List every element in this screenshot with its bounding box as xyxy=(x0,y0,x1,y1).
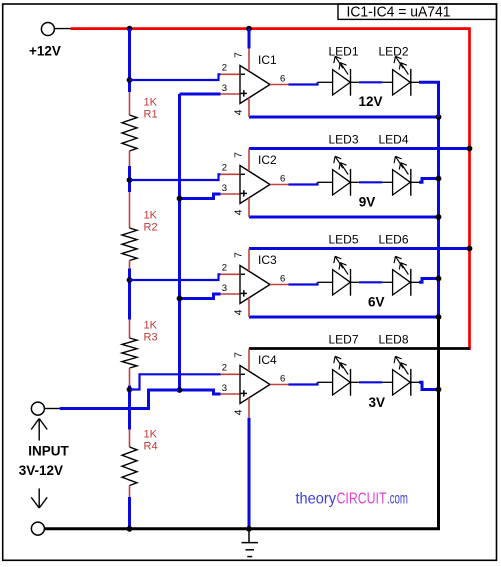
svg-text:4: 4 xyxy=(233,209,245,215)
node +12V rail / IC2 pin7 xyxy=(467,146,473,152)
wire LED2 cathode to bus xyxy=(419,82,439,117)
wire LED4 cathode to bus xyxy=(419,179,439,183)
svg-text:theory: theory xyxy=(296,490,337,507)
wire LED6 cathode to bus xyxy=(419,279,439,283)
node cathode bus / IC2 pin4 xyxy=(436,214,442,220)
IC1 pin 4 stub xyxy=(248,98,250,117)
LED7 xyxy=(318,356,359,395)
node top rail / R ladder xyxy=(127,26,133,32)
svg-text:12V: 12V xyxy=(358,94,382,109)
op-amp IC4 uA741 xyxy=(240,366,270,404)
node R4 bottom / ground rail xyxy=(127,526,133,532)
svg-text:4: 4 xyxy=(233,409,245,415)
svg-text:R2: R2 xyxy=(144,222,158,234)
node cathode bus / LED6 xyxy=(436,276,442,282)
IC2 pin 4 stub xyxy=(248,198,250,217)
wire IC4 pin4 to ground rail xyxy=(248,418,251,529)
note box IC1-IC4 = uA741 xyxy=(338,4,497,19)
wire IC1 pin 3 branch xyxy=(180,93,221,96)
svg-text:3V: 3V xyxy=(368,395,385,410)
wire IC3 pin 3 branch xyxy=(180,294,221,299)
svg-text:1K: 1K xyxy=(144,97,158,109)
wire IC3 output to LED5 xyxy=(289,282,318,284)
svg-text:LED6: LED6 xyxy=(379,233,409,247)
IC4 pin 3 stub xyxy=(221,393,240,395)
wire cathode bus (blue section) xyxy=(437,117,440,317)
svg-text:6V: 6V xyxy=(368,295,385,310)
svg-text:7: 7 xyxy=(233,352,245,358)
svg-text:R4: R4 xyxy=(144,441,158,453)
op-amp IC1 uA741 xyxy=(240,66,270,104)
LED2 xyxy=(382,56,419,95)
IC4 pin 2 stub xyxy=(221,373,240,375)
node pin3 bus / INPUT xyxy=(177,387,183,393)
svg-text:LED7: LED7 xyxy=(329,333,359,347)
IC2 pin 7 stub xyxy=(248,149,250,171)
resistor R2 1K xyxy=(122,180,137,280)
IC2 pin 3 stub xyxy=(221,193,240,195)
IC4 pin 4 stub xyxy=(248,398,250,418)
node cathode bus / LED4 xyxy=(436,176,442,182)
svg-text:1K: 1K xyxy=(144,210,158,222)
svg-text:1K: 1K xyxy=(144,320,158,332)
svg-text:2: 2 xyxy=(222,63,227,74)
wire IC1 output to LED1 xyxy=(289,82,318,84)
svg-text:3: 3 xyxy=(222,83,227,94)
arrow input down xyxy=(38,488,40,507)
svg-text:2: 2 xyxy=(222,163,227,174)
logo theoryCIRCUIT.com xyxy=(296,490,409,507)
svg-text:.com: .com xyxy=(387,490,408,507)
IC3 pin 3 stub xyxy=(221,293,240,295)
svg-text:LED1: LED1 xyxy=(329,45,359,59)
svg-text:+12V: +12V xyxy=(29,43,61,58)
svg-text:R3: R3 xyxy=(144,332,158,344)
resistor R3 1K xyxy=(122,280,137,390)
resistor R4 1K xyxy=(122,390,137,529)
wire INPUT to pin3 bus xyxy=(60,390,180,409)
IC1 pin 2 stub xyxy=(221,73,240,75)
wire LED3-LED4 link xyxy=(359,181,382,183)
LED1 xyxy=(318,56,359,95)
node top rail / IC1 pin7 xyxy=(246,26,252,32)
wire ladder to IC1 pin 2 xyxy=(130,74,221,80)
wire IC4 pin 3 branch xyxy=(180,390,221,394)
svg-text:IC2: IC2 xyxy=(258,153,277,167)
svg-text:4: 4 xyxy=(233,309,245,315)
node R1 top / IC1 pin2 xyxy=(127,77,133,83)
op-amp IC2 uA741 xyxy=(240,166,270,204)
svg-text:LED3: LED3 xyxy=(329,133,359,147)
wire ground rail (bottom) and right bus xyxy=(44,317,438,529)
wire IC4 pin7 to +12V rail xyxy=(249,347,470,350)
IC3 pin 7 stub xyxy=(248,249,250,271)
LED6 xyxy=(382,256,419,295)
svg-text:LED4: LED4 xyxy=(379,133,409,147)
svg-text:6: 6 xyxy=(280,174,285,185)
LED3 xyxy=(318,156,359,195)
node cathode bus / IC1 pin4 xyxy=(436,114,442,120)
IC3 pin 4 stub xyxy=(248,298,250,317)
LED8 xyxy=(382,356,419,395)
svg-text:3: 3 xyxy=(222,383,227,394)
LED5 xyxy=(318,256,359,295)
svg-text:6: 6 xyxy=(280,374,285,385)
svg-text:9V: 9V xyxy=(359,195,376,210)
node pin3 bus / IC3 xyxy=(177,296,183,302)
wire IC2 pin 3 branch xyxy=(180,194,221,199)
node R1-R2 / IC2 pin2 xyxy=(127,177,133,183)
svg-text:LED5: LED5 xyxy=(329,233,359,247)
wire LED7-LED8 link xyxy=(359,381,382,383)
wire IC1 pin4 to cathode bus xyxy=(249,116,439,119)
svg-text:6: 6 xyxy=(280,74,285,85)
IC1 pin 3 stub xyxy=(221,93,240,95)
wire IC1 pin7 to +12V rail xyxy=(248,29,251,49)
terminal +12V xyxy=(41,23,54,36)
wire LED5-LED6 link xyxy=(359,281,382,283)
svg-text:7: 7 xyxy=(233,252,245,258)
svg-text:IC1-IC4 = uA741: IC1-IC4 = uA741 xyxy=(347,4,451,21)
svg-text:CIRCUIT: CIRCUIT xyxy=(337,490,387,507)
wire IC2 pin7 to +12V rail xyxy=(249,147,470,150)
node +12V rail / IC3 pin7 xyxy=(467,246,473,252)
svg-text:IC4: IC4 xyxy=(258,353,277,367)
svg-text:R1: R1 xyxy=(144,109,158,121)
terminal INPUT bottom xyxy=(31,522,44,535)
svg-text:3: 3 xyxy=(222,283,227,294)
wire pin3 bus vertical xyxy=(178,94,181,390)
wire ladder to IC2 pin 2 xyxy=(130,174,221,180)
IC2 pin 6 stub xyxy=(270,184,289,186)
node R2-R3 / IC3 pin2 xyxy=(127,277,133,283)
node cathode bus / IC3 pin4 xyxy=(436,314,442,320)
IC3 pin 2 stub xyxy=(221,273,240,275)
node pin3 bus / IC2 xyxy=(177,196,183,202)
svg-text:3: 3 xyxy=(222,183,227,194)
wire IC4 output to LED7 xyxy=(289,382,318,384)
svg-text:2: 2 xyxy=(222,263,227,274)
IC2 pin 2 stub xyxy=(221,173,240,175)
wire ladder top: rail to R1 xyxy=(128,29,131,80)
wire LED1-LED2 link xyxy=(359,81,382,83)
svg-text:INPUT: INPUT xyxy=(28,443,69,458)
svg-text:1K: 1K xyxy=(144,429,158,441)
wire ladder to IC4 pin 2 xyxy=(130,374,221,389)
IC4 pin 7 stub xyxy=(248,349,250,371)
IC4 pin 6 stub xyxy=(270,384,289,386)
wire +12V rail (red) xyxy=(71,29,470,350)
wire IC2 pin4 to cathode bus xyxy=(249,216,439,219)
node ground rail / IC4 pin4 xyxy=(246,526,252,532)
IC3 pin 6 stub xyxy=(270,284,289,286)
svg-text:IC3: IC3 xyxy=(258,253,277,267)
node R3-R4 / IC4 pin2 xyxy=(127,387,133,393)
wire IC3 pin7 to +12V rail xyxy=(249,247,470,250)
IC1 pin 6 stub xyxy=(270,84,289,86)
svg-text:LED8: LED8 xyxy=(379,333,409,347)
LED4 xyxy=(382,156,419,195)
op-amp IC3 uA741 xyxy=(240,266,270,304)
svg-text:6: 6 xyxy=(280,274,285,285)
wire LED8 cathode to bus xyxy=(419,382,439,389)
svg-text:LED2: LED2 xyxy=(379,45,409,59)
svg-text:7: 7 xyxy=(233,52,245,58)
svg-text:IC1: IC1 xyxy=(258,53,277,67)
wire ladder to IC3 pin 2 xyxy=(130,274,221,280)
svg-text:3V-12V: 3V-12V xyxy=(19,463,63,478)
node cathode bus / LED8 xyxy=(436,387,442,393)
svg-text:2: 2 xyxy=(222,363,227,374)
svg-text:7: 7 xyxy=(233,152,245,158)
IC1 pin 7 stub xyxy=(248,49,250,71)
wire IC3 pin4 to cathode bus xyxy=(249,316,439,319)
resistor R1 1K xyxy=(122,80,137,180)
svg-text:4: 4 xyxy=(233,109,245,115)
terminal INPUT top xyxy=(31,402,44,415)
arrow input up xyxy=(38,420,40,441)
wire IC2 output to LED3 xyxy=(289,182,318,184)
ground symbol xyxy=(242,529,259,557)
